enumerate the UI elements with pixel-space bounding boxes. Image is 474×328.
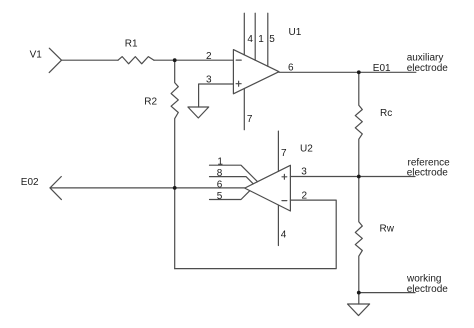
svg-text:electrode: electrode	[407, 167, 449, 178]
svg-text:4: 4	[281, 230, 287, 241]
svg-text:5: 5	[269, 34, 275, 45]
svg-text:4: 4	[247, 34, 253, 45]
svg-text:electrode: electrode	[407, 63, 449, 74]
svg-text:E01: E01	[373, 63, 391, 74]
svg-text:Rw: Rw	[380, 224, 395, 235]
svg-text:2: 2	[206, 51, 212, 62]
svg-text:E02: E02	[21, 177, 39, 188]
svg-text:7: 7	[247, 114, 253, 125]
svg-text:working: working	[406, 274, 441, 285]
svg-text:U2: U2	[300, 144, 313, 155]
svg-text:R1: R1	[125, 38, 138, 49]
svg-text:Rc: Rc	[380, 108, 392, 119]
svg-text:R2: R2	[144, 97, 157, 108]
svg-text:6: 6	[288, 62, 294, 73]
svg-text:V1: V1	[30, 50, 43, 61]
svg-text:1: 1	[217, 157, 223, 168]
svg-text:3: 3	[206, 74, 212, 85]
svg-text:6: 6	[217, 179, 223, 190]
svg-text:8: 8	[217, 168, 223, 179]
svg-text:7: 7	[281, 148, 287, 159]
svg-text:U1: U1	[289, 27, 302, 38]
svg-text:2: 2	[302, 190, 308, 201]
svg-text:5: 5	[217, 191, 223, 202]
svg-text:electrode: electrode	[407, 284, 449, 295]
svg-text:1: 1	[258, 34, 264, 45]
svg-text:3: 3	[301, 166, 307, 177]
